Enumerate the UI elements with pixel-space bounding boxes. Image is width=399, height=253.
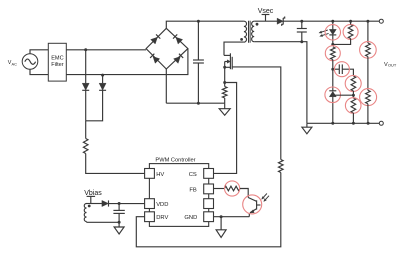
node div lower circle bbox=[360, 89, 377, 106]
wire AC line top rail bbox=[66, 49, 146, 51]
node zener circle bbox=[325, 87, 341, 103]
svg-text:OUT: OUT bbox=[388, 63, 397, 68]
node bottom rail tap bbox=[101, 74, 104, 77]
node LED lower circle bbox=[325, 46, 340, 61]
wire Vac top bbox=[30, 50, 48, 54]
node mid rail dot bbox=[352, 122, 355, 125]
node CS tap bbox=[223, 81, 226, 84]
AC source Vac bbox=[22, 54, 38, 70]
pin DRV bbox=[145, 212, 155, 222]
node bias gnd junction bbox=[118, 221, 121, 224]
wire upper R join bbox=[350, 21, 352, 24]
diode zener clamp bbox=[329, 90, 336, 92]
node top rail tap bbox=[84, 48, 87, 51]
op-amp U1 PWM controller box bbox=[149, 164, 208, 227]
svg-text:Vbias: Vbias bbox=[84, 190, 102, 197]
transformer secondary winding bbox=[252, 21, 255, 42]
node primary polarity dot bbox=[240, 38, 243, 41]
diode D2 bbox=[99, 83, 106, 90]
node GND junction bbox=[220, 215, 223, 218]
wire output bottom rail bbox=[307, 122, 379, 124]
pin VDD bbox=[145, 199, 155, 209]
node mid upper circle bbox=[345, 76, 361, 92]
wire gate bbox=[232, 67, 281, 160]
wire div bottom bbox=[367, 104, 369, 124]
node secondary polarity dot bbox=[256, 23, 259, 26]
pin FB bbox=[204, 184, 214, 194]
resistor current sense bbox=[222, 87, 227, 99]
capacitor output bbox=[301, 21, 303, 28]
transistor MOSFET bbox=[224, 54, 230, 56]
resistor HV startup bbox=[83, 139, 88, 154]
node upper R circle bbox=[343, 24, 358, 39]
wire secondary output rail bbox=[283, 20, 379, 22]
node upper R tap bbox=[349, 20, 352, 23]
svg-text:GND: GND bbox=[184, 215, 197, 221]
wire bias top bbox=[87, 203, 102, 205]
svg-text:DRV: DRV bbox=[156, 215, 168, 221]
wire secondary return bbox=[254, 41, 302, 43]
wire sense to gnd bbox=[224, 98, 226, 103]
pin NC bbox=[204, 199, 214, 209]
wire FB pin bbox=[214, 188, 225, 190]
resistor FB bbox=[225, 186, 240, 191]
bridge diode upper-right bbox=[176, 37, 183, 44]
wire MOSFET source down bbox=[224, 62, 226, 87]
diode D1 lead bbox=[85, 50, 87, 83]
node out cap tap bbox=[300, 20, 303, 23]
node div tap bbox=[366, 20, 369, 23]
node mid lower circle bbox=[345, 98, 361, 114]
node secondary return junction bbox=[300, 40, 303, 43]
node MOSFET source bbox=[223, 66, 226, 69]
probe Vbias bbox=[87, 195, 96, 197]
pin HV bbox=[145, 169, 155, 179]
wire GND pin bbox=[214, 216, 250, 218]
wire AC line bottom rail bbox=[66, 49, 188, 75]
wire secondary top bbox=[254, 20, 277, 22]
node zener rail dot bbox=[331, 122, 334, 125]
ground controller bbox=[220, 217, 222, 230]
terminal Vout+ bbox=[379, 19, 383, 23]
node fb junction bbox=[352, 94, 355, 97]
wire D2 down bbox=[86, 90, 103, 121]
capacitor bulk bbox=[197, 21, 199, 60]
svg-text:Filter: Filter bbox=[51, 62, 64, 68]
node bulk cap top bbox=[197, 20, 200, 23]
ground primary bbox=[224, 103, 226, 109]
terminal Vout- bbox=[379, 121, 383, 125]
node mid cap circle bbox=[334, 62, 349, 77]
bridge diode lower-left bbox=[153, 57, 160, 64]
node LED circle bbox=[325, 25, 340, 40]
wire div top bbox=[367, 21, 369, 43]
wire FB to opto bbox=[240, 189, 248, 198]
svg-text:AC: AC bbox=[12, 61, 18, 66]
bridge diode lower-right bbox=[174, 57, 181, 64]
node bulk cap bottom bbox=[197, 102, 200, 105]
wire D1 down bbox=[85, 90, 87, 121]
svg-text:FB: FB bbox=[189, 187, 197, 193]
ground output bbox=[306, 123, 308, 127]
bridge diode upper-left bbox=[151, 37, 158, 44]
resistor mid lower bbox=[351, 98, 356, 113]
svg-text:CS: CS bbox=[189, 172, 197, 178]
diode bias bbox=[102, 200, 109, 206]
transformer core bbox=[248, 21, 250, 43]
pin CS bbox=[204, 169, 214, 179]
wire mid to rail bbox=[352, 113, 354, 123]
svg-text:HV: HV bbox=[156, 172, 164, 178]
wire div mid bbox=[367, 57, 369, 91]
inductor bias winding bbox=[84, 204, 86, 222]
probe Vsec bbox=[262, 14, 270, 16]
wire LED chain down bbox=[332, 60, 334, 91]
node bias polarity dot bbox=[88, 205, 91, 208]
resistor bias upper bbox=[348, 25, 353, 39]
node bias cap top bbox=[118, 202, 121, 205]
wire bias bottom bbox=[86, 221, 88, 224]
wire primary bottom to drain bbox=[224, 42, 244, 55]
svg-text:VDD: VDD bbox=[156, 202, 168, 208]
wire bias to VDD bbox=[109, 203, 145, 205]
wire DC+ rail bbox=[166, 21, 244, 28]
pin GND bbox=[204, 212, 214, 222]
wire fb node bbox=[333, 94, 354, 96]
svg-text:EMC: EMC bbox=[51, 56, 63, 62]
node LED tap bbox=[331, 20, 334, 23]
wire startup to HV bbox=[85, 121, 87, 139]
node FB circle bbox=[225, 181, 240, 196]
resistor mid upper bbox=[351, 76, 356, 91]
wire Vac bottom bbox=[30, 69, 48, 74]
wire return down bbox=[302, 42, 307, 124]
diode opto LED bbox=[332, 21, 334, 29]
wire DC- rail bbox=[165, 69, 167, 103]
bridge rectifier outline bbox=[146, 28, 188, 69]
wire mid join bbox=[352, 91, 354, 98]
transformer primary winding bbox=[244, 21, 247, 42]
transistor opto phototransistor bbox=[248, 198, 256, 202]
ground bias bbox=[118, 222, 120, 227]
capacitor bias bbox=[118, 204, 120, 211]
resistor divider upper bbox=[366, 43, 371, 56]
diode output schottky bbox=[277, 18, 283, 24]
resistor LED lower bbox=[330, 47, 335, 60]
wire gate bottom bbox=[136, 173, 280, 247]
resistor gate drive bbox=[278, 160, 283, 173]
node opto circle bbox=[243, 195, 262, 214]
diode D1 bbox=[82, 83, 89, 90]
wire CS sense bbox=[214, 83, 237, 174]
opto light arrows bbox=[263, 194, 266, 198]
resistor divider lower bbox=[366, 90, 371, 103]
capacitor mid bbox=[333, 68, 340, 70]
svg-text:PWM Controller: PWM Controller bbox=[155, 157, 195, 163]
node div upper circle bbox=[360, 42, 377, 59]
node mid cap tap bbox=[331, 68, 334, 71]
node div rail dot bbox=[367, 122, 370, 125]
diode D2 lead bbox=[102, 75, 104, 83]
LED light arrows bbox=[322, 30, 328, 32]
EMC filter box bbox=[48, 43, 66, 81]
node join dot bbox=[331, 43, 334, 46]
